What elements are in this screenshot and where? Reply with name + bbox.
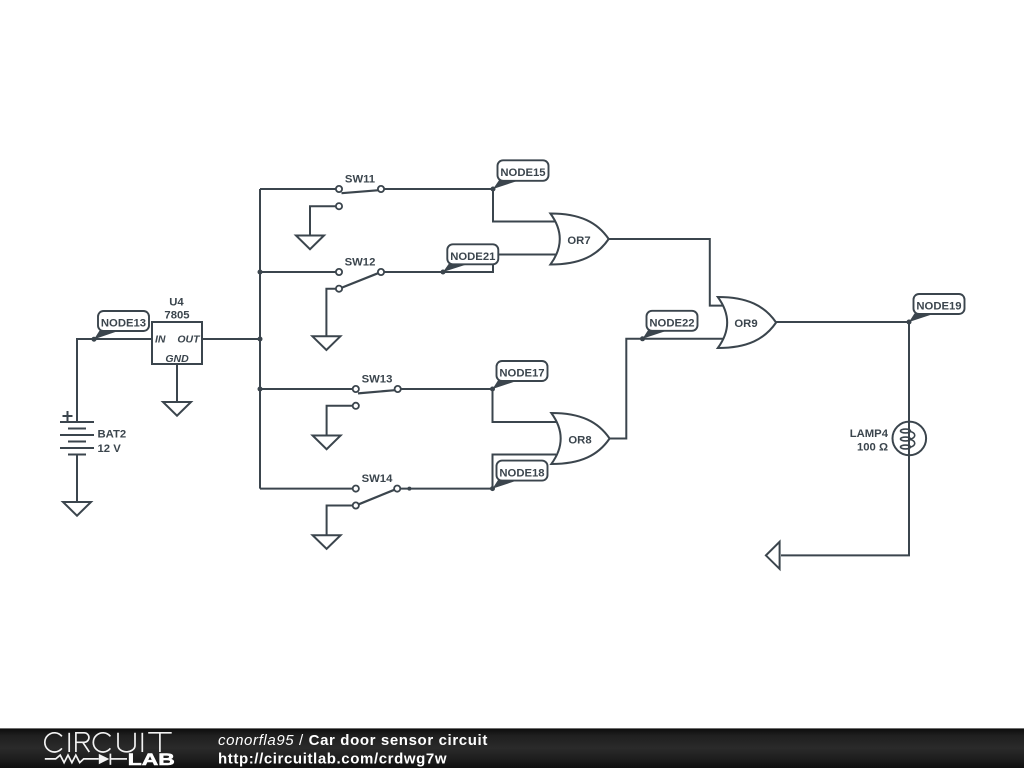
svg-text:OUT: OUT xyxy=(177,334,201,346)
svg-text:LAB: LAB xyxy=(128,751,175,768)
svg-text:LAMP4: LAMP4 xyxy=(850,428,889,440)
svg-text:NODE19: NODE19 xyxy=(916,300,961,312)
svg-text:SW12: SW12 xyxy=(345,256,376,268)
svg-text:GND: GND xyxy=(165,353,189,365)
svg-text:U4: U4 xyxy=(169,296,184,308)
svg-text:http://circuitlab.com/crdwg7w: http://circuitlab.com/crdwg7w xyxy=(218,750,447,767)
svg-text:OR9: OR9 xyxy=(734,318,757,330)
svg-text:NODE13: NODE13 xyxy=(101,318,146,330)
svg-text:SW13: SW13 xyxy=(362,374,393,386)
svg-text:NODE15: NODE15 xyxy=(500,167,545,179)
svg-text:SW11: SW11 xyxy=(345,173,375,185)
svg-text:NODE17: NODE17 xyxy=(499,368,544,380)
svg-text:OR7: OR7 xyxy=(567,235,590,247)
svg-text:SW14: SW14 xyxy=(362,473,393,485)
svg-text:7805: 7805 xyxy=(164,309,189,321)
svg-text:100 Ω: 100 Ω xyxy=(857,441,888,453)
svg-text:NODE21: NODE21 xyxy=(450,251,495,263)
svg-text:conorfla95 / Car door sensor c: conorfla95 / Car door sensor circuit xyxy=(218,732,488,749)
svg-text:OR8: OR8 xyxy=(568,434,591,446)
svg-text:IN: IN xyxy=(155,334,166,346)
svg-text:12 V: 12 V xyxy=(98,443,122,455)
svg-text:NODE18: NODE18 xyxy=(499,467,544,479)
svg-text:NODE22: NODE22 xyxy=(649,318,694,330)
svg-text:BAT2: BAT2 xyxy=(98,428,127,440)
